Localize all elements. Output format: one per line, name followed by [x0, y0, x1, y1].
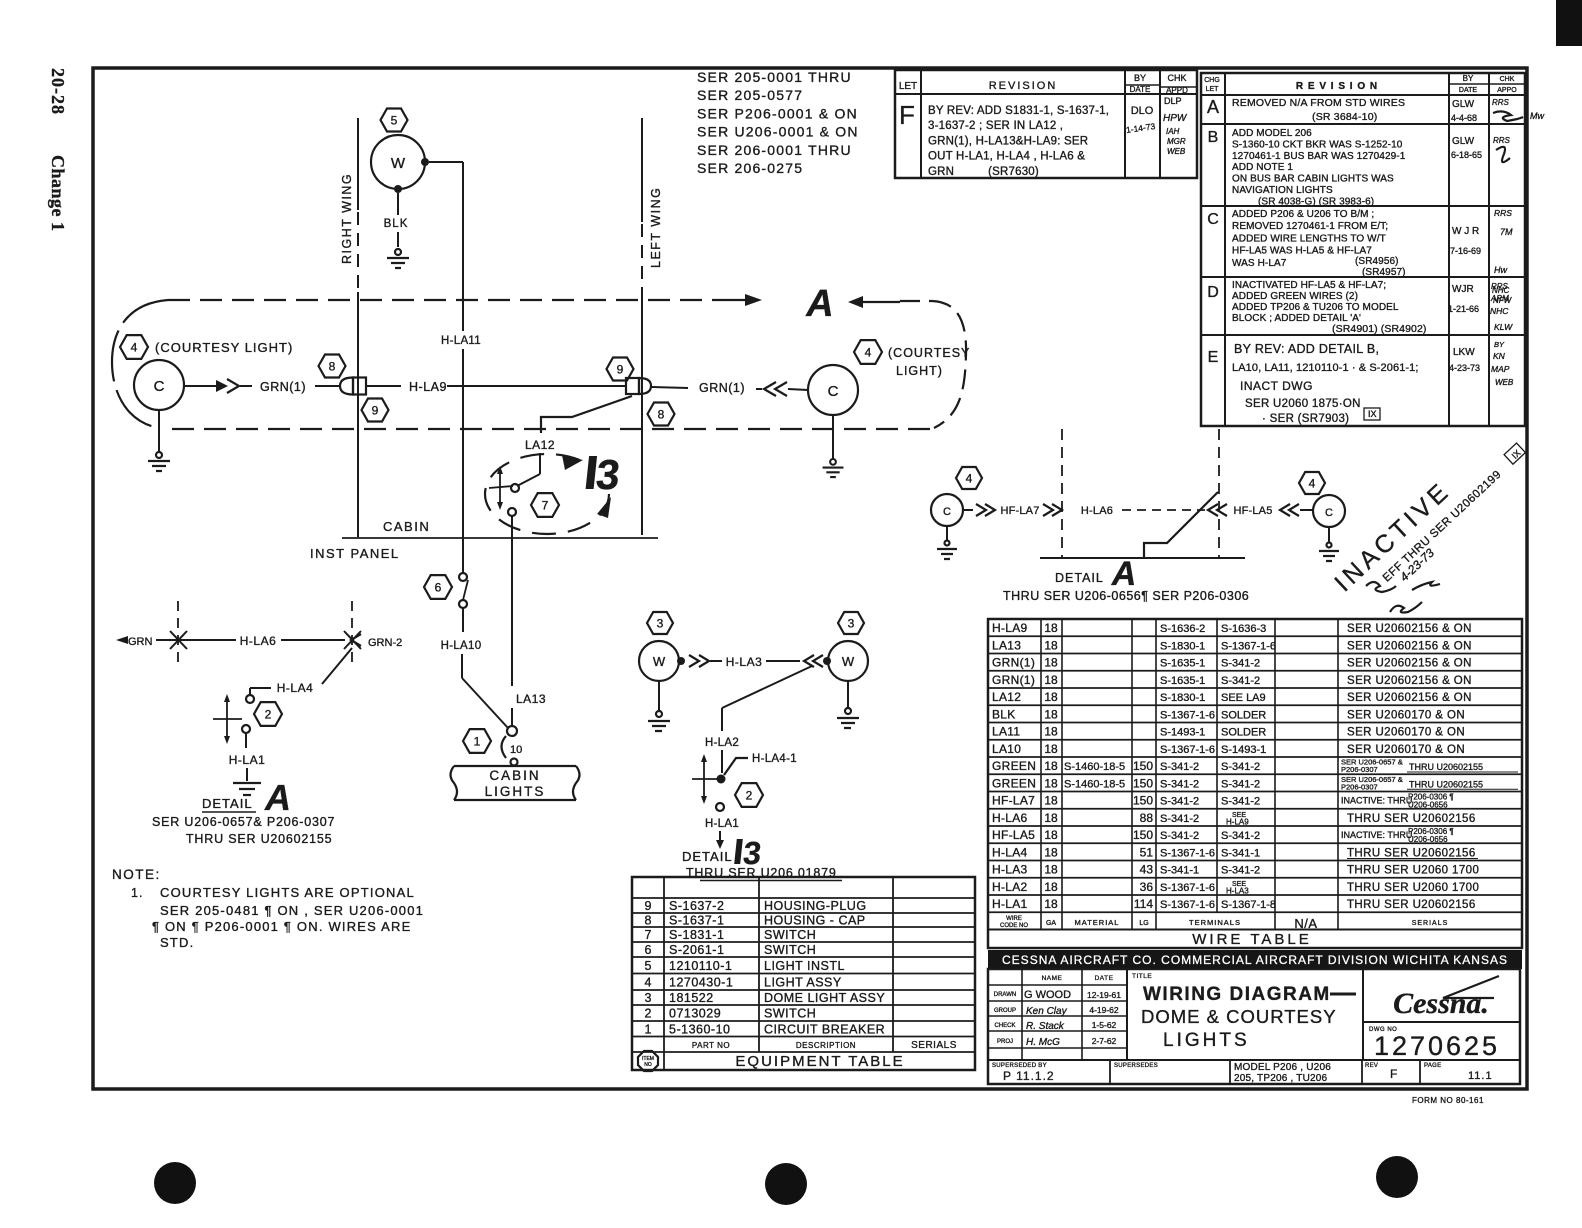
ground (detail A left) [233, 783, 261, 795]
svg-text:HOUSING - CAP: HOUSING - CAP [764, 914, 866, 928]
svg-text:10: 10 [510, 744, 522, 756]
drawing border frame [93, 68, 1527, 1089]
svg-text:S-341-1: S-341-1 [1221, 847, 1260, 859]
svg-text:IX: IX [1368, 409, 1377, 419]
svg-text:ADDED WIRE LENGTHS TO W/T: ADDED WIRE LENGTHS TO W/T [1232, 233, 1386, 244]
wire GRN(1) left [184, 379, 340, 394]
svg-text:GRN(1): GRN(1) [260, 380, 306, 394]
svg-text:3: 3 [645, 991, 652, 1005]
svg-text:C: C [1207, 211, 1219, 228]
svg-text:S-341-2: S-341-2 [1160, 778, 1199, 790]
svg-text:W: W [653, 654, 666, 669]
dome switch (7) [489, 466, 519, 516]
callout 4 detail A right [1299, 472, 1325, 494]
svg-text:5: 5 [391, 113, 398, 127]
svg-text:LIGHTS: LIGHTS [1163, 1030, 1250, 1051]
svg-text:H-LA6: H-LA6 [992, 811, 1028, 825]
svg-text:SOLDER: SOLDER [1221, 709, 1266, 721]
svg-text:LET: LET [1206, 86, 1220, 93]
svg-text:6: 6 [435, 580, 442, 594]
svg-text:H-LA2: H-LA2 [705, 737, 739, 749]
svg-text:INACT DWG: INACT DWG [1240, 379, 1313, 393]
switch (2) detail B [692, 754, 726, 804]
svg-text:S-1830-1: S-1830-1 [1160, 640, 1205, 652]
svg-text:THRU SER U20602156: THRU SER U20602156 [1347, 847, 1476, 859]
svg-text:WIRING DIAGRAM: WIRING DIAGRAM [1143, 984, 1331, 1005]
svg-text:S-1367-1-6: S-1367-1-6 [1160, 847, 1215, 859]
callout 3 left [647, 612, 673, 634]
svg-text:88: 88 [1140, 811, 1154, 825]
svg-text:SER 206-0001 THRU: SER 206-0001 THRU [697, 142, 852, 158]
svg-text:COURTESY LIGHTS ARE OPTIONAL: COURTESY LIGHTS ARE OPTIONAL [160, 885, 415, 900]
svg-text:GLW: GLW [1452, 136, 1475, 147]
wire table [988, 619, 1522, 948]
courtesy light label left [155, 340, 293, 355]
page number 20-28 [48, 68, 68, 115]
wire H-LA4-1 leader [724, 753, 797, 775]
ground (B right) [837, 681, 859, 728]
svg-text:REMOVED 1270461-1 FROM E/T;: REMOVED 1270461-1 FROM E/T; [1232, 221, 1388, 232]
svg-text:DOME & COURTESY: DOME & COURTESY [1141, 1006, 1337, 1027]
svg-text:SUPERSEDES: SUPERSEDES [1114, 1063, 1158, 1069]
revision table F [895, 70, 1197, 178]
svg-text:8: 8 [645, 914, 652, 928]
svg-text:SER U20602156 & ON: SER U20602156 & ON [1347, 658, 1472, 670]
svg-text:GRN(1): GRN(1) [699, 381, 745, 395]
svg-text:4: 4 [645, 975, 652, 989]
svg-text:S-341-2: S-341-2 [1221, 761, 1260, 773]
callout 6 [424, 575, 452, 599]
svg-text:HF-LA7: HF-LA7 [1000, 505, 1039, 517]
svg-text:1: 1 [474, 734, 481, 748]
svg-text:H. McG: H. McG [1026, 1037, 1060, 1048]
svg-text:S-341-2: S-341-2 [1160, 796, 1199, 808]
svg-text:Mw: Mw [1530, 111, 1544, 121]
svg-text:THRU SER U206-0656¶ SER P206-0: THRU SER U206-0656¶ SER P206-0306 [1003, 589, 1249, 603]
detail A baseline [1040, 557, 1245, 559]
change 1 label [48, 155, 68, 232]
svg-text:KN: KN [1493, 351, 1506, 361]
svg-text:BY: BY [1494, 340, 1505, 349]
svg-text:H-LA9: H-LA9 [992, 621, 1028, 635]
callout 9 [362, 399, 389, 422]
svg-text:CHK: CHK [1500, 76, 1515, 83]
svg-text:11.1: 11.1 [1468, 1070, 1493, 1082]
ground (C left) [148, 410, 170, 471]
svg-text:S-1635-1: S-1635-1 [1160, 675, 1205, 687]
svg-text:DLO: DLO [1131, 105, 1154, 117]
svg-text:MAP: MAP [1491, 364, 1510, 374]
svg-text:APPO: APPO [1497, 87, 1517, 94]
svg-text:DETAIL: DETAIL [682, 849, 733, 864]
svg-text:(SR 3684-10): (SR 3684-10) [1312, 111, 1377, 123]
svg-text:(SR4956): (SR4956) [1355, 256, 1399, 267]
svg-text:1-21-66: 1-21-66 [1448, 304, 1479, 314]
detail B arrow label [584, 451, 624, 498]
svg-text:SOLDER: SOLDER [1221, 727, 1266, 739]
callout 8 right [648, 403, 675, 426]
breaker pin 10 [502, 736, 523, 766]
left wing station line [641, 118, 643, 535]
svg-text:BY: BY [1463, 74, 1474, 83]
svg-text:GLW: GLW [1452, 99, 1475, 110]
svg-text:MATERIAL: MATERIAL [1075, 918, 1120, 927]
svg-text:DESCRIPTION: DESCRIPTION [796, 1041, 856, 1050]
svg-text:E: E [1208, 349, 1219, 366]
courtesy light C detail A right [1313, 495, 1345, 527]
svg-text:LA12: LA12 [525, 438, 555, 452]
svg-text:(SR4901) (SR4902): (SR4901) (SR4902) [1332, 323, 1427, 335]
svg-text:GRN-2: GRN-2 [368, 637, 402, 649]
panel switch (6) [459, 573, 468, 608]
svg-text:SER U2060170 & ON: SER U2060170 & ON [1347, 709, 1465, 721]
svg-text:18: 18 [1044, 845, 1058, 859]
ground (C right) [823, 415, 844, 477]
courtesy light C detail A left [931, 494, 963, 526]
svg-text:PART NO: PART NO [692, 1041, 730, 1050]
svg-text:H-LA1: H-LA1 [229, 753, 266, 767]
detail A step wire [1144, 492, 1218, 557]
svg-text:SER U20602156 & ON: SER U20602156 & ON [1347, 623, 1472, 635]
svg-text:RRS: RRS [1494, 208, 1512, 218]
svg-text:NAME: NAME [1042, 975, 1063, 982]
svg-text:18: 18 [1044, 811, 1058, 825]
svg-text:150: 150 [1133, 828, 1153, 842]
punch hole middle [765, 1163, 807, 1205]
svg-text:SER U206-0657& P206-0307: SER U206-0657& P206-0307 [152, 815, 335, 829]
svg-text:H-LA11: H-LA11 [441, 335, 481, 347]
svg-text:C: C [943, 506, 951, 518]
callout 2 detail B [735, 783, 763, 807]
svg-text:WAS H-LA7: WAS H-LA7 [1232, 258, 1287, 269]
svg-text:HF-LA5 WAS H-LA5 & HF-LA7: HF-LA5 WAS H-LA5 & HF-LA7 [1232, 246, 1372, 257]
svg-text:6: 6 [645, 943, 652, 957]
svg-text:S-1831-1: S-1831-1 [669, 928, 724, 942]
svg-text:18: 18 [1044, 690, 1058, 704]
termination GRN-2 [344, 601, 402, 664]
svg-text:THRU SER U2060 1700: THRU SER U2060 1700 [1347, 882, 1479, 894]
svg-text:THRU SER U20602155: THRU SER U20602155 [186, 832, 332, 846]
svg-text:SERIALS: SERIALS [1412, 920, 1449, 927]
svg-text:S-341-2: S-341-2 [1221, 658, 1260, 670]
svg-text:8: 8 [658, 407, 665, 421]
switch (2) detail A [213, 694, 250, 744]
svg-text:SWITCH: SWITCH [764, 943, 816, 957]
svg-text:3-1637-2 ; SER IN LA12 ,: 3-1637-2 ; SER IN LA12 , [928, 120, 1063, 132]
cabin / inst panel divider [310, 519, 658, 561]
BLK lead [384, 185, 409, 247]
svg-text:1: 1 [645, 1022, 652, 1036]
svg-text:5-1360-10: 5-1360-10 [669, 1022, 731, 1036]
svg-text:SER 205-0481 ¶ ON , SER U206-: SER 205-0481 ¶ ON , SER U206-0001 [160, 903, 424, 918]
svg-text:S-1460-18-5: S-1460-18-5 [1064, 778, 1125, 790]
svg-text:H-LA4-1: H-LA4-1 [752, 753, 797, 765]
left wing label [649, 187, 663, 268]
svg-text:(COURTESY: (COURTESY [888, 346, 970, 360]
svg-text:REV: REV [1365, 1063, 1378, 1069]
lamp W detail B left [639, 641, 679, 681]
wire lamp to H-LA11 [421, 158, 463, 166]
svg-text:INACTIVE: THRU: INACTIVE: THRU [1341, 830, 1412, 840]
svg-text:1270461-1 BUS BAR WAS 1270429-: 1270461-1 BUS BAR WAS 1270429-1 [1232, 151, 1406, 162]
svg-text:18: 18 [1044, 621, 1058, 635]
svg-text:MGR: MGR [1167, 137, 1186, 146]
svg-text:4-23-73: 4-23-73 [1449, 363, 1480, 373]
svg-text:WEB: WEB [1167, 147, 1186, 156]
svg-text:C: C [154, 378, 165, 395]
svg-text:LEFT WING: LEFT WING [649, 187, 663, 268]
view arrow A [805, 283, 833, 325]
svg-text:KLW: KLW [1494, 322, 1513, 332]
svg-text:7: 7 [645, 928, 652, 942]
svg-text:205, TP206 , TU206: 205, TP206 , TU206 [1234, 1073, 1328, 1084]
wire H-LA9 [366, 380, 626, 394]
svg-text:IAH: IAH [1166, 127, 1180, 136]
svg-text:S-341-2: S-341-2 [1221, 796, 1260, 808]
wire HF-LA7 [963, 504, 1062, 517]
svg-text:GRN: GRN [128, 636, 153, 648]
wire H-LA10 [441, 608, 508, 728]
svg-text:Cessna.: Cessna. [1393, 987, 1489, 1020]
svg-text:S-1636-2: S-1636-2 [1160, 623, 1205, 635]
junction LA13/H-LA10 [507, 726, 517, 736]
svg-text:GREEN: GREEN [992, 759, 1036, 773]
svg-text:RRS: RRS [1492, 98, 1510, 107]
svg-text:S-341-2: S-341-2 [1221, 778, 1260, 790]
svg-text:18: 18 [1044, 742, 1058, 756]
svg-text:P206-0307: P206-0307 [1341, 782, 1378, 791]
svg-text:2-7-62: 2-7-62 [1092, 1036, 1117, 1046]
svg-text:CABIN: CABIN [383, 519, 430, 534]
svg-text:S-1367-1-6: S-1367-1-6 [1160, 744, 1215, 756]
svg-text:NO: NO [644, 1062, 652, 1068]
svg-text:1270430-1: 1270430-1 [669, 975, 733, 989]
svg-text:W: W [391, 155, 406, 172]
svg-text:DOME LIGHT ASSY: DOME LIGHT ASSY [764, 991, 885, 1005]
svg-text:4-4-68: 4-4-68 [1451, 113, 1477, 123]
svg-text:F: F [899, 100, 915, 130]
svg-text:A: A [1207, 97, 1219, 117]
svg-text:LKW: LKW [1453, 347, 1475, 358]
wire HF-LA5 [1208, 504, 1313, 517]
svg-text:LET: LET [899, 81, 917, 92]
courtesy light C right [808, 365, 858, 415]
svg-text:SER P206-0001 & ON: SER P206-0001 & ON [697, 105, 858, 121]
svg-text:S-341-2: S-341-2 [1221, 675, 1260, 687]
svg-text:2: 2 [265, 707, 272, 721]
courtesy light C left [134, 360, 184, 410]
svg-text:DETAIL: DETAIL [1055, 571, 1104, 585]
svg-text:HOUSING-PLUG: HOUSING-PLUG [764, 899, 867, 913]
svg-text:WEB: WEB [1495, 378, 1514, 387]
svg-text:1210110-1: 1210110-1 [669, 959, 732, 973]
svg-text:SER 206-0275: SER 206-0275 [697, 160, 803, 176]
svg-text:H-LA4: H-LA4 [277, 681, 314, 695]
svg-text:ADD MODEL 206: ADD MODEL 206 [1232, 128, 1312, 139]
svg-text:U206-0656: U206-0656 [1408, 835, 1448, 844]
right wing label [340, 173, 354, 264]
callout 4 detail A left [956, 467, 982, 489]
svg-text:LIGHT): LIGHT) [896, 364, 943, 378]
cabin lights bus box [451, 766, 580, 800]
svg-text:GROUP: GROUP [994, 1008, 1016, 1014]
svg-text:S-2061-1: S-2061-1 [669, 943, 724, 957]
svg-text:18: 18 [1044, 880, 1058, 894]
svg-text:43: 43 [1140, 863, 1154, 877]
svg-text:INST PANEL: INST PANEL [310, 546, 400, 561]
detail B serial note [686, 866, 842, 881]
svg-text:HF-LA5: HF-LA5 [1233, 505, 1272, 517]
svg-text:RRS: RRS [1491, 282, 1509, 291]
svg-text:NHC: NHC [1490, 306, 1509, 316]
detail A station lines [1062, 429, 1219, 557]
svg-text:CODE NO: CODE NO [1000, 923, 1028, 929]
svg-text:18: 18 [1044, 897, 1058, 911]
svg-text:NAVIGATION LIGHTS: NAVIGATION LIGHTS [1232, 185, 1333, 196]
svg-text:8: 8 [329, 359, 336, 373]
svg-text:HF-LA7: HF-LA7 [992, 794, 1035, 808]
svg-text:9: 9 [617, 362, 624, 376]
svg-text:THRU U20602155: THRU U20602155 [1409, 762, 1483, 772]
svg-text:150: 150 [1133, 794, 1153, 808]
ground (B left) [648, 681, 670, 731]
svg-text:APPD: APPD [1166, 86, 1188, 95]
svg-text:S-1493-1: S-1493-1 [1221, 744, 1266, 756]
svg-text:Hw: Hw [1494, 265, 1507, 275]
detail A title [1055, 555, 1136, 593]
svg-text:S-341-2: S-341-2 [1221, 865, 1260, 877]
svg-text:LG: LG [1139, 920, 1148, 927]
svg-text:¶ ON ¶ P206-0001 ¶ ON. WIRES: ¶ ON ¶ P206-0001 ¶ ON. WIRES ARE [152, 919, 411, 934]
svg-text:GRN(1): GRN(1) [992, 656, 1035, 670]
svg-text:HPW: HPW [1163, 113, 1188, 124]
svg-text:CHECK: CHECK [994, 1023, 1015, 1029]
svg-text:12-19-61: 12-19-61 [1087, 990, 1121, 1000]
svg-text:WIRE TABLE: WIRE TABLE [1192, 931, 1311, 948]
corner registration mark [1556, 0, 1582, 46]
svg-text:REVISION: REVISION [989, 80, 1058, 92]
svg-text:GRN(1): GRN(1) [992, 673, 1035, 687]
svg-text:3: 3 [657, 616, 664, 630]
svg-text:18: 18 [1044, 725, 1058, 739]
svg-text:2: 2 [645, 1007, 652, 1021]
svg-text:ON BUS BAR CABIN LIGHTS WAS: ON BUS BAR CABIN LIGHTS WAS [1232, 174, 1394, 185]
detail A serial note [1003, 589, 1249, 603]
svg-text:5: 5 [645, 959, 652, 973]
svg-text:S-1367-1-6: S-1367-1-6 [1160, 709, 1215, 721]
svg-text:GRN (SR7630): GRN (SR7630) [928, 166, 1039, 178]
svg-text:4: 4 [865, 345, 872, 359]
lamp W detail B right [828, 641, 868, 681]
svg-text:7: 7 [542, 498, 549, 512]
right wing station line [357, 118, 359, 537]
svg-text:BY REV: ADD DETAIL B,: BY REV: ADD DETAIL B, [1234, 342, 1379, 356]
svg-text:S-1493-1: S-1493-1 [1160, 727, 1205, 739]
svg-text:150: 150 [1133, 776, 1153, 790]
svg-text:18: 18 [1044, 776, 1058, 790]
wire H-LA6 detail A [240, 634, 345, 648]
svg-text:W J R: W J R [1452, 226, 1479, 237]
svg-text:(COURTESY LIGHT): (COURTESY LIGHT) [155, 340, 293, 355]
svg-text:SER U20602156 & ON: SER U20602156 & ON [1347, 640, 1472, 652]
svg-text:A: A [264, 777, 291, 818]
svg-text:EQUIPMENT TABLE: EQUIPMENT TABLE [735, 1053, 904, 1070]
wire GRN detail A [116, 631, 236, 649]
svg-text:H-LA6: H-LA6 [1081, 505, 1113, 517]
ground (detail A C right) [1319, 527, 1339, 561]
svg-text:ADDED GREEN WIRES (2): ADDED GREEN WIRES (2) [1232, 291, 1358, 302]
svg-text:S-1830-1: S-1830-1 [1160, 692, 1205, 704]
wire H-LA3 [677, 655, 831, 669]
svg-text:CIRCUIT BREAKER: CIRCUIT BREAKER [764, 1022, 885, 1036]
svg-text:H-LA9: H-LA9 [1226, 817, 1249, 826]
svg-text:R. Stack: R. Stack [1026, 1021, 1065, 1032]
svg-text:H-LA3: H-LA3 [1226, 886, 1249, 895]
wire H-LA2 [705, 666, 812, 773]
detail A title [202, 777, 291, 818]
wire H-LA4 detail A [246, 648, 352, 703]
svg-text:S-1367-1-6: S-1367-1-6 [1160, 882, 1215, 894]
svg-text:9: 9 [645, 899, 652, 913]
svg-text:H-LA2: H-LA2 [992, 880, 1028, 894]
connector left (8/9) [340, 378, 366, 395]
svg-text:BLK: BLK [992, 707, 1016, 721]
svg-text:18: 18 [1044, 656, 1058, 670]
svg-text:· SER (SR7903): · SER (SR7903) [1262, 413, 1349, 425]
callout 9 right [607, 358, 634, 381]
serial effectivity note [697, 69, 859, 176]
svg-text:TERMINALS: TERMINALS [1189, 918, 1241, 927]
svg-text:S-1636-3: S-1636-3 [1221, 623, 1266, 635]
svg-text:150: 150 [1133, 759, 1153, 773]
svg-text:S-341-2: S-341-2 [1221, 830, 1260, 842]
callout 7 [531, 493, 559, 517]
punch hole right [1376, 1156, 1418, 1198]
svg-text:CHG: CHG [1204, 77, 1220, 84]
svg-text:1-5-62: 1-5-62 [1092, 1020, 1117, 1030]
svg-text:LA13: LA13 [516, 692, 546, 706]
svg-text:LA10: LA10 [992, 742, 1021, 756]
courtesy light label right [888, 346, 970, 378]
svg-text:GREEN: GREEN [992, 776, 1036, 790]
svg-text:CESSNA AIRCRAFT CO. COMMERCIA: CESSNA AIRCRAFT CO. COMMERCIAL AIRCRAFT … [1002, 953, 1508, 967]
svg-text:SERIALS: SERIALS [911, 1040, 957, 1051]
svg-text:GA: GA [1046, 920, 1056, 927]
svg-text:INACTIVATED HF-LA5 & HF-LA7;: INACTIVATED HF-LA5 & HF-LA7; [1232, 280, 1386, 291]
svg-text:LA10, LA11, 1210110-1 · & S-20: LA10, LA11, 1210110-1 · & S-2061-1; [1232, 362, 1419, 374]
title block [988, 969, 1520, 1084]
svg-text:4: 4 [131, 340, 138, 354]
svg-text:ADD NOTE 1: ADD NOTE 1 [1232, 162, 1293, 173]
svg-text:1270625: 1270625 [1374, 1031, 1500, 1061]
svg-text:S-341-2: S-341-2 [1160, 813, 1199, 825]
svg-text:S-341-2: S-341-2 [1160, 761, 1199, 773]
svg-text:SER U20602156 & ON: SER U20602156 & ON [1347, 692, 1472, 704]
callout 4 left [120, 335, 148, 359]
form number [1412, 1096, 1484, 1105]
svg-text:F: F [1390, 1067, 1397, 1081]
svg-text:H-LA9: H-LA9 [409, 380, 447, 394]
detail B boundary ellipse [485, 454, 611, 534]
svg-text:(SR 4038-G) (SR 3983-6): (SR 4038-G) (SR 3983-6) [1258, 196, 1374, 207]
connector right (9/8) [626, 378, 651, 394]
svg-text:FORM NO 80-161: FORM NO 80-161 [1412, 1096, 1484, 1105]
svg-text:Ken Clay: Ken Clay [1026, 1006, 1068, 1017]
company band [988, 950, 1522, 969]
wire LA12 [517, 396, 632, 486]
wire LA13 [512, 516, 546, 726]
svg-text:THRU U20602155: THRU U20602155 [1409, 779, 1483, 789]
